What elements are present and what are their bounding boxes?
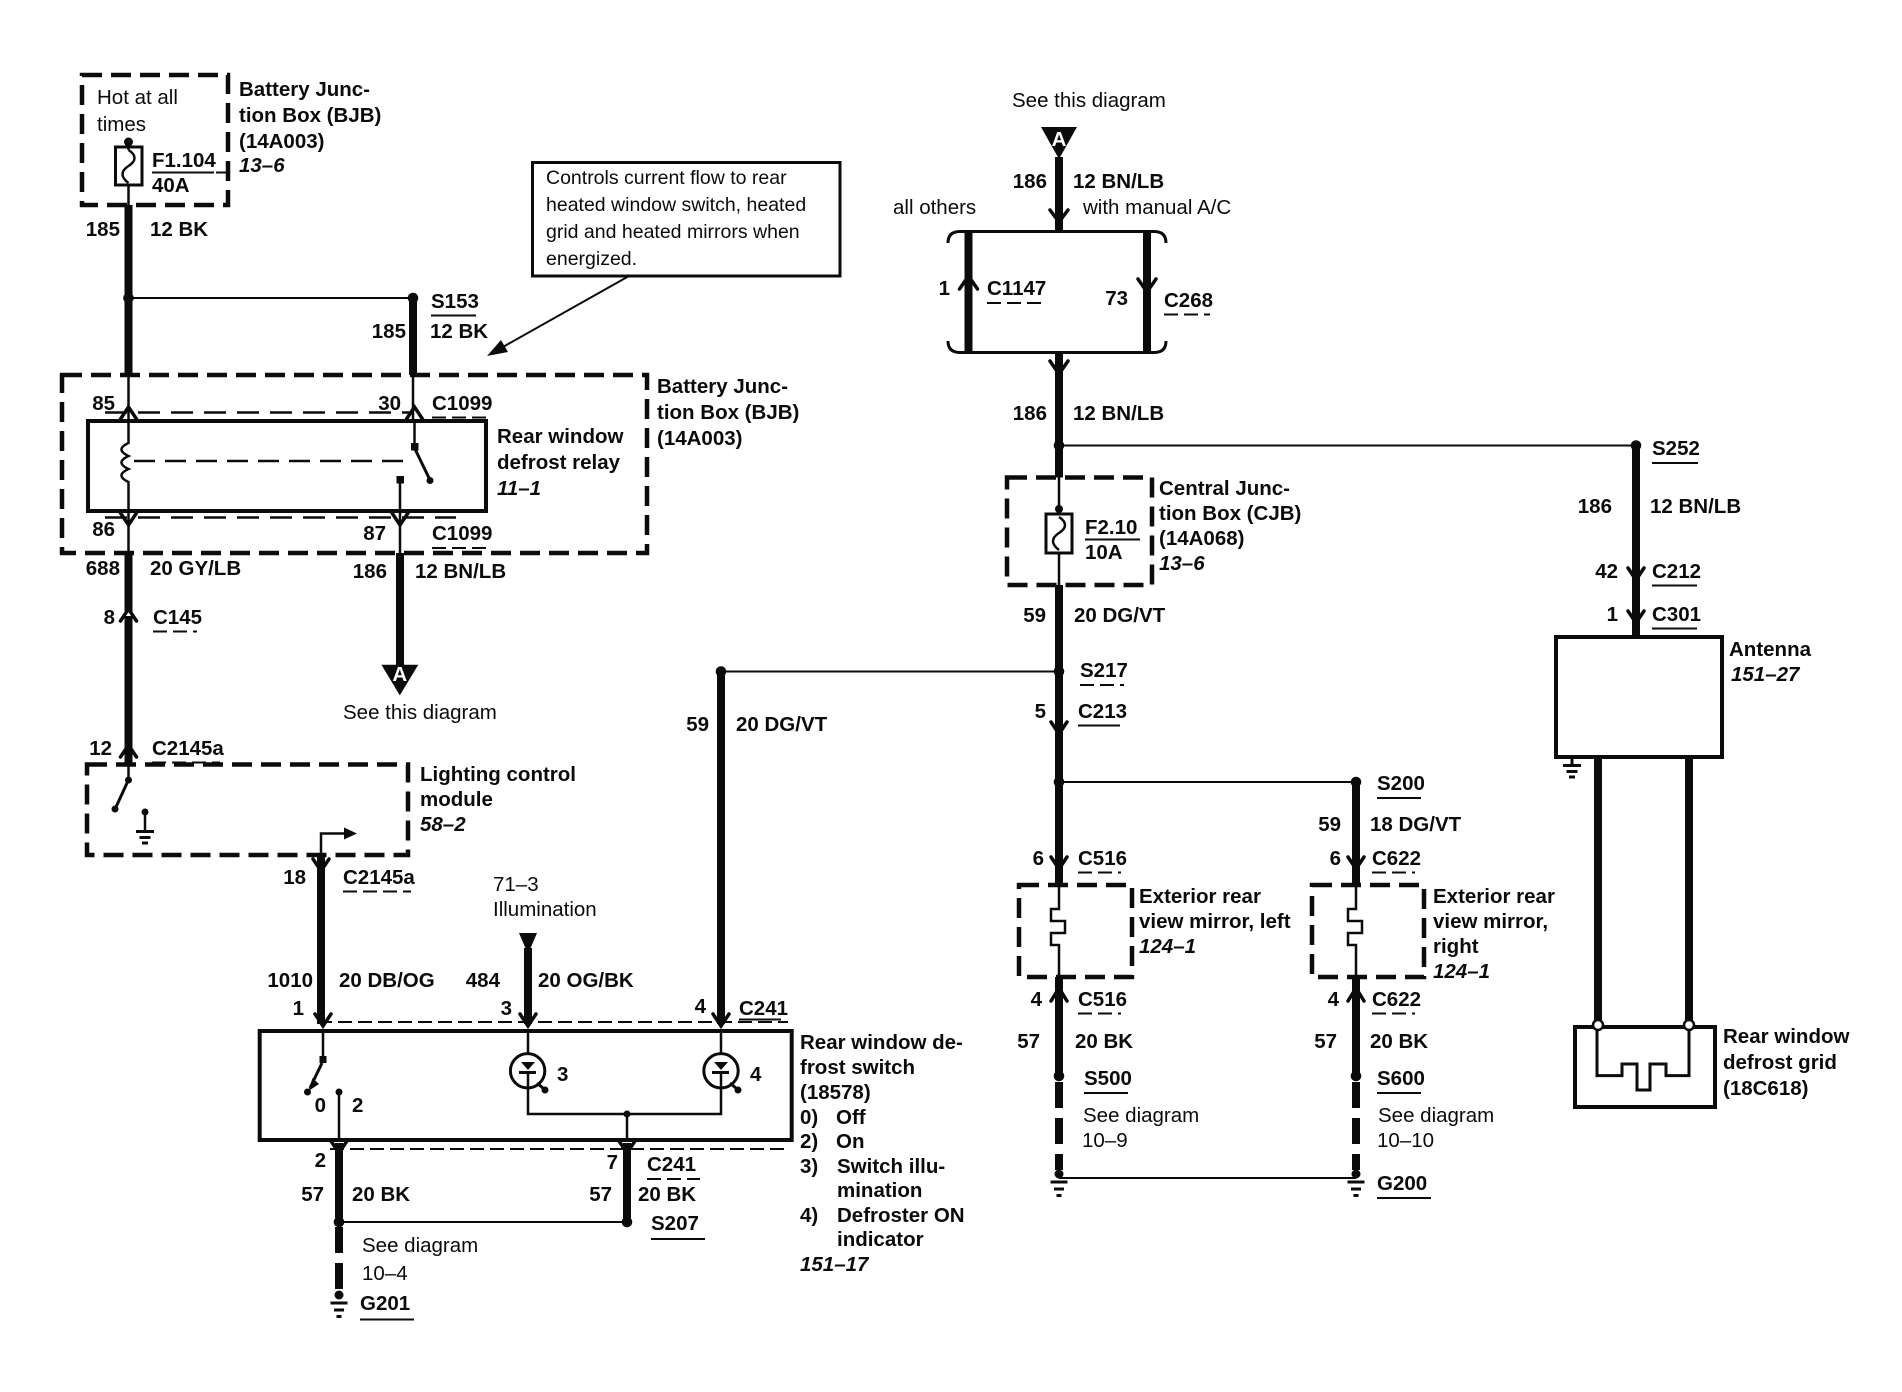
Exterior rear view mirror, left box: [1019, 885, 1132, 977]
svg-text:S500: S500: [1084, 1067, 1132, 1090]
svg-text:Illumination: Illumination: [493, 898, 597, 921]
svg-text:(18C618): (18C618): [1723, 1077, 1808, 1100]
svg-text:8: 8: [104, 606, 115, 629]
svg-text:20 DB/OG: 20 DB/OG: [339, 969, 435, 992]
svg-text:C212: C212: [1652, 560, 1701, 583]
svg-text:20 DG/VT: 20 DG/VT: [1074, 604, 1166, 627]
svg-text:S153: S153: [431, 290, 479, 313]
fuse F2.10 10A: [1046, 478, 1140, 586]
svg-text:10A: 10A: [1085, 541, 1123, 564]
wire 57 20 BK right mirror: [1352, 977, 1360, 1076]
svg-text:Rear window: Rear window: [1723, 1025, 1849, 1048]
Battery Junction Box (BJB) label, top: [239, 78, 381, 177]
svg-text:Exterior rear: Exterior rear: [1433, 885, 1555, 908]
svg-text:12 BN/LB: 12 BN/LB: [1073, 402, 1164, 425]
svg-text:Exterior rear: Exterior rear: [1139, 885, 1261, 908]
svg-text:3: 3: [501, 997, 512, 1020]
svg-text:C145: C145: [153, 606, 202, 629]
wire 186 12 BN/LB to CJB: [1055, 353, 1063, 478]
svg-text:30: 30: [378, 392, 401, 415]
wire to left mirror: [1055, 782, 1063, 885]
svg-text:59: 59: [686, 713, 709, 736]
svg-text:Rear window de-: Rear window de-: [800, 1031, 963, 1054]
svg-text:Hot at all: Hot at all: [97, 86, 178, 109]
svg-text:2): 2): [800, 1130, 818, 1153]
svg-text:186: 186: [1013, 170, 1047, 193]
svg-text:Antenna: Antenna: [1729, 638, 1812, 661]
connector C622 pin 6 arrow: [1348, 857, 1364, 869]
wire antenna to grid, left: [1594, 757, 1602, 1020]
wire 59 20 DG/VT below CJB: [1055, 585, 1063, 782]
svg-text:13–6: 13–6: [239, 154, 285, 177]
connector C212 pin 42 arrow: [1628, 568, 1644, 580]
ground G200: [1348, 1170, 1432, 1199]
svg-text:12 BN/LB: 12 BN/LB: [415, 560, 506, 583]
svg-text:S200: S200: [1377, 772, 1425, 795]
svg-text:4: 4: [695, 995, 707, 1018]
Battery Junction Box (BJB) label, relay box: [657, 375, 799, 450]
svg-text:C1099: C1099: [432, 522, 492, 545]
wire pin86 lead: [127, 511, 130, 553]
svg-text:58–2: 58–2: [420, 813, 466, 836]
svg-text:F2.10: F2.10: [1085, 516, 1137, 539]
rear window defrost relay 11-1 box: [88, 421, 486, 511]
svg-text:C301: C301: [1652, 603, 1701, 626]
svg-text:57: 57: [301, 1183, 324, 1206]
svg-text:11–1: 11–1: [497, 477, 541, 500]
pin 1 arrow into switch: [315, 1014, 331, 1026]
svg-text:2: 2: [315, 1149, 326, 1172]
pin 2 arrow: [331, 1141, 347, 1153]
svg-text:See this diagram: See this diagram: [343, 701, 497, 724]
svg-text:Central Junc-: Central Junc-: [1159, 477, 1290, 500]
connector C1099 line, bottom: [105, 516, 456, 519]
svg-text:57: 57: [1314, 1030, 1337, 1053]
svg-text:C516: C516: [1078, 847, 1127, 870]
pin 3 arrow into switch: [520, 1014, 536, 1026]
wire to G201 (dashed): [335, 1227, 343, 1290]
wire 688 20 GY/LB: [125, 553, 133, 612]
node: splice to S200: [1054, 777, 1065, 788]
svg-text:13–6: 13–6: [1159, 552, 1205, 575]
svg-text:0: 0: [315, 1094, 326, 1117]
svg-text:5: 5: [1035, 700, 1046, 723]
antenna ground: [1563, 757, 1581, 777]
svg-text:12: 12: [89, 737, 112, 760]
svg-text:6: 6: [1330, 847, 1341, 870]
svg-text:S600: S600: [1377, 1067, 1425, 1090]
svg-text:module: module: [420, 788, 493, 811]
svg-text:See diagram: See diagram: [362, 1234, 478, 1257]
wire 59 20 DG/VT (S217 to C241 pin 4): [716, 666, 727, 677]
svg-text:59: 59: [1023, 604, 1046, 627]
ground, left mirror branch: [1051, 1170, 1068, 1196]
svg-text:12 BK: 12 BK: [150, 218, 208, 241]
svg-text:18: 18: [283, 866, 306, 889]
wire 688 below C145: [125, 616, 133, 764]
wire to G200 right (dashed): [1352, 1082, 1360, 1170]
connector C516 pin 6 arrow: [1051, 857, 1067, 869]
note arrow to relay: [494, 276, 629, 352]
svg-text:view mirror,: view mirror,: [1433, 910, 1548, 933]
switch blade pin1: [322, 1031, 325, 1058]
svg-text:186: 186: [1578, 495, 1612, 518]
right mirror heater element: [1348, 885, 1362, 977]
svg-text:6: 6: [1033, 847, 1044, 870]
relay actuating dashed link: [134, 460, 410, 463]
svg-text:(18578): (18578): [800, 1081, 871, 1104]
relay coil: [122, 421, 129, 511]
wire 185 12 BK (S153 to BJB): [409, 298, 417, 375]
node S500: [1054, 1071, 1065, 1082]
wire antenna to grid, right: [1685, 757, 1693, 1020]
split rail, bottom: [948, 341, 1166, 353]
svg-text:85: 85: [92, 392, 115, 415]
svg-text:tion Box (BJB): tion Box (BJB): [657, 401, 799, 424]
svg-text:C213: C213: [1078, 700, 1127, 723]
svg-text:185: 185: [86, 218, 120, 241]
svg-text:A: A: [392, 663, 407, 686]
pin 73 arrow C268: [1138, 279, 1156, 292]
svg-text:86: 86: [92, 518, 115, 541]
svg-text:C516: C516: [1078, 988, 1127, 1011]
wire 186 12 BN/LB (to diagram A): [396, 553, 404, 665]
Central Junction Box (CJB) enclosure: [1007, 478, 1152, 586]
svg-text:4: 4: [750, 1063, 762, 1086]
svg-text:1010: 1010: [267, 969, 313, 992]
connector C301 pin 1 arrow: [1628, 611, 1644, 623]
node: junction on wire 185: [123, 293, 134, 304]
svg-text:A: A: [1052, 128, 1067, 151]
svg-text:tion Box (BJB): tion Box (BJB): [239, 104, 381, 127]
pin 87 arrow: [392, 513, 408, 525]
svg-text:151–27: 151–27: [1731, 663, 1801, 686]
svg-text:Controls current flow to rear: Controls current flow to rear: [546, 167, 787, 189]
Rear window defrost grid box: [1575, 1027, 1715, 1107]
wire 185 continues to BJB: [125, 298, 133, 375]
relay switch blade: [415, 449, 430, 479]
svg-text:C622: C622: [1372, 847, 1421, 870]
svg-text:F1.104: F1.104: [152, 149, 216, 172]
grid terminal, right: [1684, 1020, 1694, 1030]
connector C241 line, top: [318, 1021, 788, 1023]
svg-text:12 BN/LB: 12 BN/LB: [1650, 495, 1741, 518]
svg-text:57: 57: [589, 1183, 612, 1206]
pin 85 arrow: [121, 407, 137, 419]
splice S207 link: [334, 1217, 345, 1228]
LCM internal ground: [136, 809, 154, 844]
arrow into split: [1050, 210, 1068, 222]
node S600: [1351, 1071, 1362, 1082]
svg-text:defrost grid: defrost grid: [1723, 1051, 1837, 1074]
wire 57 20 BK (pin2): [335, 1143, 343, 1218]
svg-text:688: 688: [86, 557, 120, 580]
svg-text:4: 4: [1328, 988, 1340, 1011]
node: splice to S252: [1054, 440, 1065, 451]
svg-text:(14A003): (14A003): [239, 130, 324, 153]
svg-text:C1147: C1147: [987, 277, 1046, 300]
svg-text:See this diagram: See this diagram: [1012, 89, 1166, 112]
LCM internal switch: [127, 765, 130, 780]
svg-text:57: 57: [1017, 1030, 1040, 1053]
svg-text:view mirror, left: view mirror, left: [1139, 910, 1291, 933]
svg-text:On: On: [836, 1130, 864, 1153]
note box: relay function: [533, 163, 841, 277]
connector C516 pin 4 arrow: [1051, 988, 1067, 1001]
svg-text:indicator: indicator: [837, 1228, 924, 1251]
svg-text:times: times: [97, 113, 146, 136]
svg-text:20 BK: 20 BK: [352, 1183, 410, 1206]
Lighting control module box: [87, 765, 408, 856]
svg-text:12 BN/LB: 12 BN/LB: [1073, 170, 1164, 193]
svg-text:124–1: 124–1: [1139, 935, 1196, 958]
pin 4 arrow into switch: [713, 1014, 729, 1026]
svg-text:mination: mination: [837, 1179, 922, 1202]
node S217: [1054, 666, 1065, 677]
connector C213 pin 5 arrow: [1051, 722, 1067, 734]
arrow out of split: [1050, 361, 1068, 374]
svg-text:10–4: 10–4: [362, 1262, 408, 1285]
pin 86 arrow: [121, 513, 137, 525]
svg-text:4): 4): [800, 1204, 818, 1227]
svg-text:See diagram: See diagram: [1083, 1104, 1199, 1127]
svg-text:71–3: 71–3: [493, 873, 539, 896]
svg-text:59: 59: [1318, 813, 1341, 836]
svg-text:Lighting control: Lighting control: [420, 763, 576, 786]
svg-text:185: 185: [372, 320, 406, 343]
svg-text:S217: S217: [1080, 659, 1128, 682]
svg-text:20 BK: 20 BK: [638, 1183, 696, 1206]
svg-text:186: 186: [1013, 402, 1047, 425]
grid element: [1597, 1030, 1689, 1090]
off-page triangle A, left: [381, 665, 418, 696]
svg-text:Switch illu-: Switch illu-: [837, 1155, 945, 1178]
svg-text:484: 484: [466, 969, 501, 992]
node S252: [1631, 440, 1642, 451]
svg-text:40A: 40A: [152, 174, 190, 197]
svg-text:7: 7: [607, 1151, 618, 1174]
svg-text:124–1: 124–1: [1433, 960, 1490, 983]
svg-text:2: 2: [352, 1094, 363, 1117]
node S153: [408, 293, 419, 304]
svg-text:3): 3): [800, 1155, 818, 1178]
svg-text:4: 4: [1031, 988, 1043, 1011]
svg-text:20 BK: 20 BK: [1370, 1030, 1428, 1053]
svg-text:1: 1: [293, 997, 304, 1020]
connector C2145a pin 18 arrow: [313, 859, 329, 871]
svg-text:C2145a: C2145a: [152, 737, 224, 760]
svg-text:with manual A/C: with manual A/C: [1082, 196, 1231, 219]
svg-text:S207: S207: [651, 1212, 699, 1235]
power feed box: Hot at all times (BJB): [82, 75, 228, 205]
svg-text:12 BK: 12 BK: [430, 320, 488, 343]
grid terminal, left: [1593, 1020, 1603, 1030]
off-page triangle A, top: [1041, 127, 1077, 159]
Exterior rear view mirror, right box: [1312, 885, 1424, 977]
relay switch contact 30: [413, 421, 416, 444]
wire 186 12 BN/LB from A: [1055, 157, 1063, 232]
svg-text:42: 42: [1595, 560, 1618, 583]
svg-text:G201: G201: [360, 1292, 410, 1315]
left mirror heater element: [1051, 885, 1065, 977]
connector C145 pin 8 arrow: [121, 609, 137, 621]
svg-text:(14A068): (14A068): [1159, 527, 1244, 550]
svg-text:right: right: [1433, 935, 1479, 958]
svg-text:0): 0): [800, 1106, 818, 1129]
wire 1010 20 DB/OG: [317, 855, 325, 1024]
wire pin85 lead inside BJB: [127, 375, 130, 421]
wire: splice branch to S252: [1059, 445, 1636, 447]
contact 2: [336, 1089, 343, 1096]
svg-text:S252: S252: [1652, 437, 1700, 460]
svg-text:20 GY/LB: 20 GY/LB: [150, 557, 241, 580]
svg-text:all others: all others: [893, 196, 976, 219]
connector C2145a pin 12 arrow: [121, 745, 137, 757]
branch wire C1147: [965, 232, 973, 353]
svg-text:18 DG/VT: 18 DG/VT: [1370, 813, 1462, 836]
svg-text:tion Box (CJB): tion Box (CJB): [1159, 502, 1301, 525]
svg-text:20 BK: 20 BK: [1075, 1030, 1133, 1053]
svg-text:151–17: 151–17: [800, 1253, 870, 1276]
Rear window defrost switch box: [260, 1031, 792, 1140]
svg-text:73: 73: [1105, 287, 1128, 310]
lamp return wires: [528, 1088, 721, 1114]
svg-text:grid and heated mirrors when: grid and heated mirrors when: [546, 221, 800, 243]
svg-text:C1099: C1099: [432, 392, 492, 415]
node S200: [1351, 777, 1362, 788]
svg-text:186: 186: [353, 560, 387, 583]
defrost switch legend: [800, 1031, 965, 1276]
wire 186 12 BN/LB to antenna: [1632, 446, 1640, 638]
svg-text:10–9: 10–9: [1082, 1129, 1128, 1152]
svg-text:C241: C241: [739, 997, 788, 1020]
contact 0: [304, 1089, 311, 1096]
wire pin87 lead: [399, 511, 402, 553]
connector C241 line, bottom: [330, 1148, 786, 1150]
split rail, top: [948, 232, 1166, 244]
Antenna box: [1556, 637, 1722, 757]
svg-text:20 OG/BK: 20 OG/BK: [538, 969, 634, 992]
svg-text:G200: G200: [1377, 1172, 1427, 1195]
pin 7 arrow: [619, 1141, 635, 1153]
svg-text:C622: C622: [1372, 988, 1421, 1011]
svg-text:See diagram: See diagram: [1378, 1104, 1494, 1127]
svg-text:3: 3: [557, 1063, 568, 1086]
wire 484 20 OG/BK: [524, 948, 532, 1024]
svg-text:1: 1: [939, 277, 950, 300]
Battery Junction Box (BJB) dashed enclosure: [62, 375, 647, 553]
svg-text:C241: C241: [647, 1153, 696, 1176]
svg-text:10–10: 10–10: [1377, 1129, 1434, 1152]
wire: splice branch to S153: [129, 297, 414, 299]
svg-text:C268: C268: [1164, 289, 1213, 312]
svg-text:Off: Off: [836, 1106, 866, 1129]
svg-text:defrost relay: defrost relay: [497, 451, 621, 474]
svg-text:Defroster ON: Defroster ON: [837, 1204, 965, 1227]
connector C1099 line, top: [105, 411, 414, 414]
svg-text:Rear window: Rear window: [497, 425, 623, 448]
wire 57 20 BK (pin7): [623, 1143, 631, 1218]
branch wire C268: [1143, 232, 1151, 353]
ground link wire: [1059, 1177, 1356, 1179]
wire 59 18 DG/VT right mirror: [1352, 782, 1360, 885]
node S207: [622, 1217, 633, 1228]
pin 30 arrow: [407, 407, 423, 419]
fuse F1.104 40A: [116, 138, 229, 206]
indicator lamp 3: [510, 1031, 568, 1094]
pin 1 arrow C1147: [960, 276, 978, 289]
svg-text:heated window switch, heated: heated window switch, heated: [546, 194, 806, 216]
wire to G200 left (dashed): [1055, 1082, 1063, 1170]
wire pin30 lead inside BJB: [412, 375, 415, 421]
svg-text:energized.: energized.: [546, 248, 637, 270]
svg-text:20 DG/VT: 20 DG/VT: [736, 713, 828, 736]
svg-text:frost switch: frost switch: [800, 1056, 915, 1079]
svg-text:C2145a: C2145a: [343, 866, 415, 889]
wire 57 20 BK left mirror: [1055, 977, 1063, 1076]
connector C622 pin 4 arrow: [1348, 988, 1364, 1001]
LCM output link to pin 18: [321, 834, 346, 856]
indicator lamp 4: [704, 1031, 762, 1094]
svg-text:(14A003): (14A003): [657, 427, 742, 450]
ground G201: [331, 1291, 415, 1320]
wire 185 12 BK (fuse to splice S153): [125, 205, 133, 298]
svg-text:Battery Junc-: Battery Junc-: [239, 78, 370, 101]
svg-text:1: 1: [1607, 603, 1618, 626]
svg-text:87: 87: [363, 522, 386, 545]
svg-text:Battery Junc-: Battery Junc-: [657, 375, 788, 398]
relay switch contact 87: [397, 476, 405, 484]
